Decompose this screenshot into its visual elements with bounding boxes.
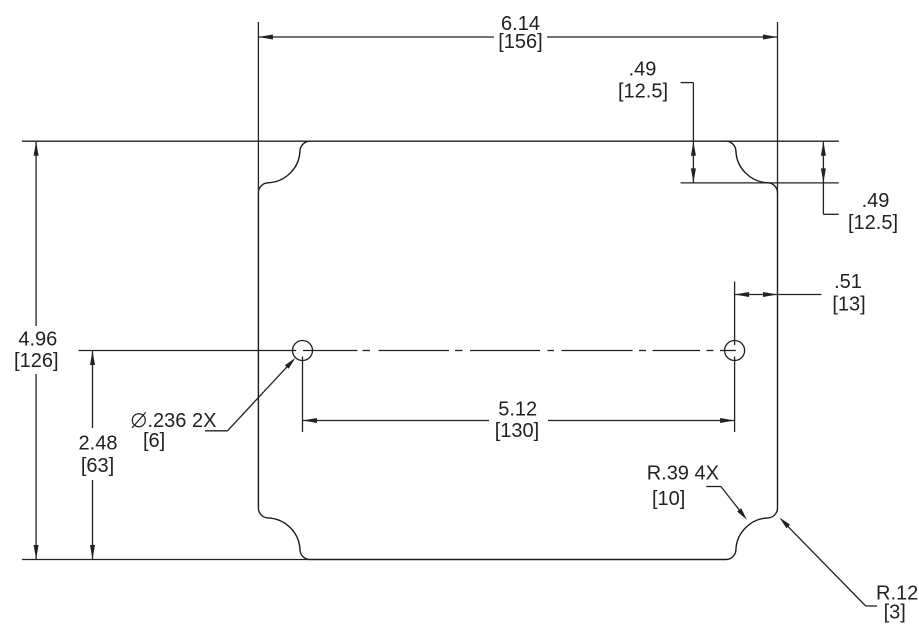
svg-text:[63]: [63] bbox=[81, 455, 114, 477]
svg-text:[6]: [6] bbox=[143, 430, 165, 452]
svg-text:[3]: [3] bbox=[884, 602, 906, 624]
svg-text:[13]: [13] bbox=[832, 294, 865, 316]
svg-text:4.96: 4.96 bbox=[18, 329, 57, 351]
svg-text:.51: .51 bbox=[834, 271, 862, 293]
svg-text:.49: .49 bbox=[862, 190, 890, 212]
svg-text:[12.5]: [12.5] bbox=[848, 212, 898, 234]
svg-text:.236 2X: .236 2X bbox=[148, 410, 217, 432]
svg-text:[10]: [10] bbox=[652, 488, 685, 510]
svg-text:[130]: [130] bbox=[495, 420, 539, 442]
svg-text:[12.5]: [12.5] bbox=[618, 81, 668, 103]
svg-text:.49: .49 bbox=[629, 59, 657, 81]
svg-text:[126]: [126] bbox=[14, 350, 58, 372]
svg-text:5.12: 5.12 bbox=[498, 399, 537, 421]
svg-text:[156]: [156] bbox=[498, 31, 542, 53]
svg-text:R.39 4X: R.39 4X bbox=[647, 463, 719, 485]
svg-text:2.48: 2.48 bbox=[79, 433, 118, 455]
